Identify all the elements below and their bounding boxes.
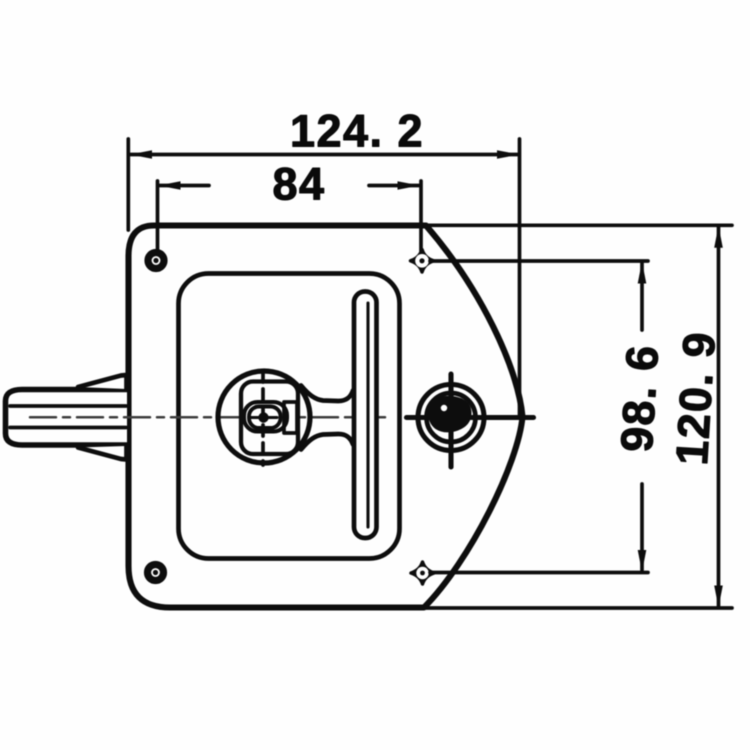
hub outer ring (244, 402, 287, 432)
rod inner line upper (10, 404, 126, 408)
dimension 124.2 line (131, 153, 519, 157)
dimension 84 line right segment (369, 184, 419, 188)
svg-text:84: 84 (272, 159, 325, 210)
handle stem upper edge (301, 386, 353, 402)
horizontal centerline (30, 416, 392, 419)
screw bottom-left (148, 565, 164, 581)
hub step rectangle (284, 402, 297, 433)
lock cylinder outer circle (418, 385, 484, 451)
dimension 124.2 extension line right (518, 139, 522, 417)
hub vertical dashed centerline (261, 371, 265, 465)
lock keyway filled blob (428, 396, 472, 433)
dimension 98.6 extension line top (430, 259, 648, 263)
dimension 84 arrow right (398, 181, 420, 190)
dimension 120.9 extension line bottom (plate bottom edge extended) (425, 606, 732, 610)
dimension 84 line left segment (159, 184, 209, 188)
rod flange wedge upper (78, 375, 127, 389)
rod inner line lower (10, 426, 126, 430)
dimension 120.9 arrow top (714, 226, 723, 248)
dimension 124.2 extension line left (126, 139, 130, 230)
T-handle grip bar (354, 292, 377, 539)
lock cylinder inner circle (427, 393, 476, 442)
hub center dot (258, 412, 268, 422)
dimension 124.2 arrow right (497, 150, 519, 159)
svg-text:98. 6: 98. 6 (611, 343, 668, 454)
screw hole top-right diamond mark (411, 250, 434, 273)
dimension 84 extension line right (419, 181, 423, 251)
latch rod (6, 390, 128, 446)
svg-text:120. 9: 120. 9 (666, 330, 725, 467)
handle pivot boss circle (218, 371, 310, 463)
hub retainer rounded square (241, 382, 298, 455)
dimension 98.6 line upper segment (640, 263, 644, 331)
recess pan rounded rectangle (179, 274, 400, 559)
grip bar inner line (366, 303, 369, 527)
dimension 120.9 arrow bottom (714, 586, 723, 608)
dimension 124.2 arrow left (130, 150, 152, 159)
hub center tick (251, 416, 277, 419)
dimension 120.9 extension line top (plate top edge extended) (427, 223, 732, 227)
dimension 84 arrow left (159, 181, 181, 190)
dimension 98.6 line lower segment (640, 484, 644, 570)
dimension 98.6 arrow top (638, 262, 647, 284)
latch plate outline (129, 226, 523, 608)
dimension 98.6 arrow bottom (638, 550, 647, 572)
handle stem lower edge (301, 434, 353, 450)
lock crosshair horizontal (407, 415, 534, 420)
screw top-left (148, 253, 164, 269)
lock keyway white speck (441, 405, 447, 411)
dimension 120.9 line (717, 227, 721, 607)
rod flange wedge lower (78, 446, 127, 460)
screw hole bottom-right diamond mark (411, 562, 434, 584)
lock crosshair vertical (448, 374, 453, 467)
svg-text:124. 2: 124. 2 (290, 106, 424, 157)
dimension 98.6 extension line bottom (430, 571, 648, 575)
hub middle ring (249, 407, 281, 429)
dimension 84 extension line left (156, 181, 160, 253)
